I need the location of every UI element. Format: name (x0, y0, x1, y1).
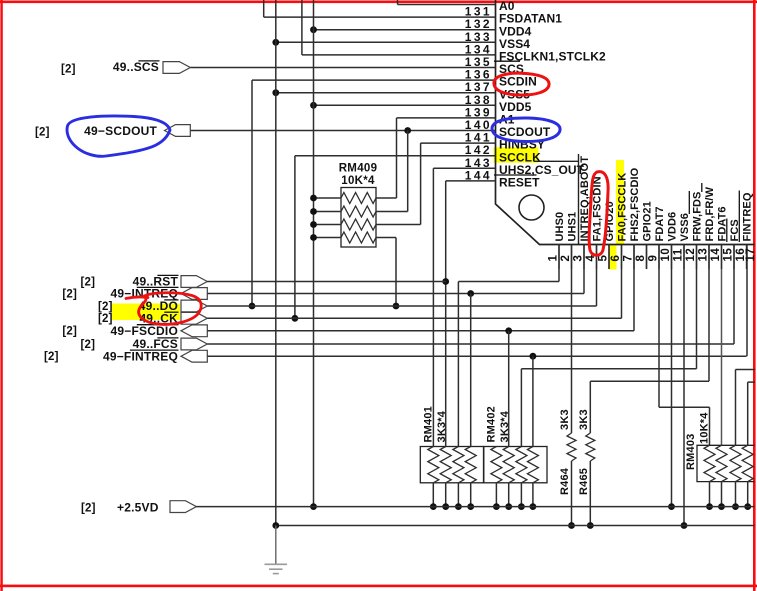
svg-text:3K3*4: 3K3*4 (436, 410, 448, 442)
junction VSS-GND bus (272, 522, 279, 529)
junction RM402-1 (493, 503, 500, 510)
overline FINTREQ (130, 349, 179, 351)
svg-text:RM402: RM402 (486, 406, 498, 442)
resistor RM401 element 1 (428, 447, 439, 483)
junction INTREQ-RM401-4 (467, 290, 474, 297)
overline bar W part of pin13 name (701, 183, 703, 192)
wire RM401-4 riser (470, 294, 472, 447)
pin 15 stub (733, 245, 735, 270)
svg-text:49..SCS: 49..SCS (113, 60, 159, 74)
wire down to R465 (589, 381, 591, 433)
wire FSCDIO line to pin7 (207, 330, 634, 332)
wire RM409-2 left stub to VDD (314, 211, 342, 213)
wire down to RM402-3 (520, 369, 522, 447)
wire pin133 VSS4 to VSS net (276, 41, 496, 43)
svg-text:15: 15 (723, 248, 735, 262)
junction RESET-RST line (442, 278, 449, 285)
wire pin13 FRD,FR/W down (708, 245, 710, 382)
pin 5 stub (608, 245, 610, 270)
junction VSS4 (272, 39, 279, 46)
overline RESET pin name (494, 174, 537, 176)
junction VDD-RM409-4 (310, 234, 317, 241)
resistor RM402 element 4 (527, 447, 538, 483)
wire RM409-3 right to HINBSY (376, 224, 421, 226)
svg-text:R464: R464 (559, 467, 571, 495)
wire pin10 VDD6 down to +2.5V bus (671, 245, 673, 507)
wire pin143 UHS2,CS_OUT (433, 167, 495, 169)
pin 8 stub (646, 245, 648, 270)
wire RM403-1 to +2.5V bus (709, 482, 711, 507)
wire pin4 FA1,FSCDIN stub (596, 245, 598, 307)
junction RM401-3 (455, 503, 462, 510)
svg-text:7: 7 (623, 255, 635, 262)
overline bar FINTREQ pin16 name (738, 191, 740, 243)
overline SCS pin name (494, 60, 520, 62)
junction VDD4 (310, 26, 317, 33)
svg-text:+2.5VD: +2.5VD (117, 501, 159, 515)
wire pin142 SCCLK (295, 155, 496, 157)
junction VDD6 (668, 503, 675, 510)
yellow highlight pin 6 number (609, 244, 617, 270)
svg-text:11: 11 (673, 248, 685, 261)
yellow highlight 49..CK label (112, 304, 180, 321)
annotation red stroke under 49-INTREQ (126, 297, 148, 299)
annotation red circle around FA1,FSCDIN pin name (589, 172, 608, 256)
connector arrow in 49−INTREQ (181, 288, 207, 300)
junction RM401-4 (467, 503, 474, 510)
junction RM402-4 (530, 503, 537, 510)
svg-text:3: 3 (573, 255, 585, 262)
wire down to RM403-1 (709, 407, 711, 445)
page border red left (0, 0, 2, 591)
wire down to RM403-3 (735, 370, 737, 446)
wire pin143 down to RM401-1 (432, 168, 434, 446)
svg-text:UHS0: UHS0 (554, 212, 566, 242)
annotation red circle around 49..DO label (139, 293, 202, 325)
wire FRD,FR/W left (590, 380, 709, 382)
junction RM403-1 (706, 503, 713, 510)
resistor RM403 element 1 (704, 445, 715, 481)
svg-text:12: 12 (685, 248, 697, 262)
junction RM402-3 (518, 503, 525, 510)
resistor RM402 element 1 (491, 447, 502, 483)
wire SCDOUT net (190, 130, 495, 132)
wire RM409-2 right stub (376, 211, 408, 213)
wire RM402-1 to +2.5V bus (495, 483, 497, 507)
wire RM409-1 left stub to VDD (314, 197, 342, 199)
wire pin141 HINBSY (421, 142, 496, 144)
wire pin12 FRW,FDS down (696, 245, 698, 369)
wire pin130 A0 stub (398, 4, 496, 6)
wire RM403-4 to +2.5V bus (747, 482, 749, 507)
wire RM401-4 to +2.5V bus (470, 483, 472, 507)
annotation blue circle around SCDOUT pin name (492, 118, 560, 142)
annotation red circle around SCDIN pin name (494, 73, 549, 95)
junction VDD-RM409-2 (310, 208, 317, 215)
wire UHS0 down to RM401-3 (457, 282, 459, 447)
junction FINTREQ-RM402-4 (530, 353, 537, 360)
svg-text:14: 14 (710, 248, 722, 262)
svg-text:RM401: RM401 (423, 406, 435, 442)
wire A1 down to RM409-1 (396, 118, 398, 198)
pin 11 stub (683, 245, 685, 270)
junction RM401-1 (430, 503, 437, 510)
resistor RM409 element 2 (341, 206, 376, 217)
pin 1 stub (558, 245, 560, 270)
svg-text:[2]: [2] (98, 301, 113, 313)
overline CK (164, 311, 178, 313)
wire CK line to pin6 (207, 317, 621, 319)
wire pin16 FINTREQ stub (746, 245, 748, 357)
junction VDD to +2.5V bus (310, 503, 317, 510)
junction SCCLK-CK (292, 315, 299, 322)
wire R465 to GND bus (589, 461, 591, 526)
page border red top (0, 1, 757, 4)
svg-text:8: 8 (635, 255, 647, 262)
wire pin14 FDAT6 down to RM403-2 (721, 245, 723, 446)
resistor network RM409 box (341, 188, 376, 248)
wire SCDIN down to DO line (251, 80, 253, 306)
junction VDD5 (310, 102, 317, 109)
page border red right (753, 0, 756, 591)
pin 6 stub (621, 245, 623, 270)
wire VSS vertical net (275, 0, 277, 526)
wire pin139 A1 (397, 117, 496, 119)
wire FINTREQ line to pin16 (207, 355, 746, 357)
svg-text:10K*4: 10K*4 (699, 412, 711, 444)
junction VDD-RM409-1 (310, 195, 317, 202)
overline INTREQ (137, 286, 179, 288)
svg-text:VSS6: VSS6 (679, 213, 691, 242)
overline SCS of label (138, 60, 159, 62)
yellow highlight FA0,FSCCLK column (616, 160, 624, 244)
junction RM401-2 (442, 503, 449, 510)
wire RM401-1 to +2.5V bus (432, 483, 434, 507)
wire RM402-2 riser (508, 331, 510, 447)
stub pin5 GPIO20 (608, 245, 610, 270)
connector arrow in 49-SCDOUT (165, 125, 191, 137)
svg-text:10: 10 (660, 248, 672, 262)
wire pin15 FCS stub (733, 245, 735, 345)
svg-text:FA0,FSCCLK: FA0,FSCCLK (616, 173, 628, 242)
wire RM402-4 to +2.5V bus (532, 483, 534, 507)
wire pin131 FSDATAN1 stub (264, 16, 496, 18)
overline bar FDS part of pin12 name (688, 191, 690, 214)
page border red bottom (0, 585, 757, 588)
wire pin136 SCDIN (252, 79, 496, 81)
resistor RM401 element 2 (440, 447, 451, 483)
resistor network RM402 box (484, 447, 547, 483)
junction VDD-RM409-3 (310, 221, 317, 228)
connector arrow in 49−FINTREQ (181, 350, 207, 362)
svg-text:10K*4: 10K*4 (341, 175, 375, 187)
pin 3 stub (583, 245, 585, 270)
svg-text:1: 1 (548, 255, 560, 262)
pin 4 stub (596, 245, 598, 270)
svg-text:13: 13 (698, 248, 710, 262)
pin 13 stub (708, 245, 710, 270)
pin 7 stub (633, 245, 635, 270)
pin 10 stub (671, 245, 673, 270)
svg-text:FDAT7: FDAT7 (654, 206, 666, 241)
junction SCDOUT-RM409-2 (404, 127, 411, 134)
connector arrow out 49..RST (181, 276, 207, 288)
connector arrow out 49..SCS (163, 62, 190, 74)
wire RM402-3 to +2.5V bus (520, 483, 522, 507)
IC pin-1 index circle (519, 195, 544, 220)
resistor RM402 element 2 (503, 447, 514, 483)
wire FRW,FDS left (521, 368, 696, 370)
junction VSS5 (272, 89, 279, 96)
wire RESET down to RM401-2 (445, 181, 447, 447)
wire from sheet edge to RM403-3 (736, 369, 756, 371)
svg-text:17: 17 (745, 248, 757, 262)
wire DO line to pin4 (207, 305, 596, 307)
wire pin130 riser to top (397, 0, 399, 5)
svg-text:RESET: RESET (499, 176, 540, 190)
wire RM403-3 to +2.5V bus (735, 482, 737, 507)
overline RST (157, 274, 178, 276)
svg-text:FHS2,FSCDIO: FHS2,FSCDIO (629, 167, 641, 241)
pin 2 stub (571, 245, 573, 270)
wire FCS line to pin15 (207, 343, 734, 345)
wire pin138 VDD5 to VDD net (314, 104, 496, 106)
junction R464-GND (568, 522, 575, 529)
pin 9 stub (658, 245, 660, 270)
svg-text:VDD6: VDD6 (666, 212, 678, 242)
wire RM402-4 riser (532, 356, 534, 446)
resistor network RM403 box (697, 445, 755, 481)
annotation blue circle around 49-SCDOUT (67, 116, 170, 156)
connector arrow out 49..FCS (181, 338, 207, 350)
svg-text:[2]: [2] (81, 276, 96, 288)
svg-text:3K3: 3K3 (559, 409, 571, 430)
svg-text:[2]: [2] (35, 126, 50, 138)
junction RM402-2 (505, 503, 512, 510)
wire pin134 riser to top (301, 0, 303, 55)
resistor R464 (567, 433, 576, 461)
svg-text:49−FSCDIO: 49−FSCDIO (111, 324, 179, 338)
pin 12 stub (696, 245, 698, 270)
ground (275, 526, 277, 564)
overline FSCDIO (137, 324, 179, 326)
svg-text:6: 6 (610, 255, 622, 262)
wire RM403-2 to +2.5V bus (721, 482, 723, 507)
wire R464 to GND bus (571, 461, 573, 526)
resistor RM403 element 2 (716, 445, 727, 481)
junction RM403-4 (744, 503, 751, 510)
wire pin7 FHS2,FSCDIO stub (633, 245, 635, 331)
pin 14 stub (721, 245, 723, 270)
wire HINBSY down to RM409-3 (420, 143, 422, 224)
svg-text:[2]: [2] (61, 63, 76, 75)
junction FSCDIO-RM402-2 (505, 327, 512, 334)
resistor RM409 element 3 (341, 219, 376, 230)
resistor RM403 element 4 (742, 445, 753, 481)
wire GND bus (276, 525, 755, 527)
resistor RM401 element 3 (453, 447, 464, 483)
wire pin137 VSS5 to VSS net (276, 92, 496, 94)
svg-text:[2]: [2] (44, 351, 59, 363)
wire RST line (207, 281, 445, 283)
wire from sheet edge to RM403-4 (748, 381, 755, 383)
resistor R465 (586, 433, 595, 461)
yellow highlight SCCLK pin name (494, 147, 539, 162)
resistor network RM401 box (420, 447, 483, 483)
wire pin2 UHS1 down to R464 (571, 245, 573, 434)
svg-text:FINTREQ: FINTREQ (741, 192, 753, 241)
svg-text:FRD,FR/W: FRD,FR/W (704, 186, 716, 241)
wire RM409-3 left stub to VDD (314, 224, 342, 226)
wire RM409-4 down to DO line (395, 238, 397, 307)
svg-text:[2]: [2] (62, 326, 77, 338)
wire SCS net (190, 67, 495, 69)
wire RM401-2 to +2.5V bus (445, 483, 447, 507)
wire pin132 VDD4 to VDD net (314, 29, 496, 31)
overline DO (164, 299, 178, 301)
wire pin3 INTREQ,ABOOT stub (583, 245, 585, 294)
wire pin1 UHS0 stub down (558, 245, 560, 282)
wire SCCLK down to CK line (294, 156, 296, 319)
junction SCDIN-DO (249, 303, 256, 310)
resistor RM403 element 3 (730, 445, 741, 481)
overline bar FCS pin15 name (726, 219, 728, 243)
wire pin134 FSCLKN1 stub (302, 54, 496, 56)
wire pin144 RESET (446, 180, 496, 182)
wire pin6 FA0,FSCCLK stub (621, 245, 623, 319)
svg-text:3K3*4: 3K3*4 (499, 410, 511, 442)
wire RM402-2 to +2.5V bus (508, 483, 510, 507)
wire RM409-1 right to A1 riser (376, 197, 397, 199)
overline bar left of INTREQ,ABOOT vertical name (578, 154, 580, 244)
stub pin8 GPIO21 (646, 245, 648, 270)
wire +2.5V bus (196, 506, 754, 508)
resistor RM402 element 3 (516, 447, 527, 483)
svg-text:2: 2 (560, 255, 572, 262)
svg-text:UHS1: UHS1 (566, 212, 578, 242)
wire RM409-2 riser (407, 131, 409, 212)
svg-text:[2]: [2] (81, 503, 96, 515)
IC body outline (QFP corner with chamfer) (496, 0, 755, 245)
resistor RM409 element 4 (341, 232, 376, 243)
wire UHS0 horizontal (458, 281, 559, 283)
overline CS_OUT part of pin143 name (534, 160, 579, 162)
wire pin131 riser to top (263, 0, 265, 17)
svg-text:GPIO21: GPIO21 (641, 201, 653, 241)
svg-text:3K3: 3K3 (578, 409, 590, 430)
junction R465-GND (587, 522, 594, 529)
svg-text:RM409: RM409 (339, 163, 378, 175)
wire pin11 VSS6 down to GND bus (683, 245, 685, 526)
wire RM409-4 right stub (376, 237, 396, 239)
junction RM409-4 DO (393, 303, 400, 310)
svg-text:9: 9 (648, 255, 660, 262)
junction RM403-3 (732, 503, 739, 510)
resistor RM409 element 1 (341, 193, 376, 204)
wire FDAT7 jog right (659, 406, 710, 408)
wire INTREQ line (207, 293, 584, 295)
junction RM403-2 (718, 503, 725, 510)
wire RM401-3 to +2.5V bus (457, 483, 459, 507)
svg-text:RM403: RM403 (685, 434, 697, 470)
wire RM409-4 left stub to VDD (314, 237, 342, 239)
junction VSS6 (681, 522, 688, 529)
connector arrow out 49..DO (181, 300, 207, 312)
wire pin9 FDAT7 down (658, 245, 660, 408)
wire VDD vertical net (313, 0, 315, 507)
resistor RM401 element 4 (465, 447, 476, 483)
svg-text:FRW,FDS: FRW,FDS (691, 192, 703, 242)
pin 16 stub (746, 245, 748, 270)
svg-text:49−FINTREQ: 49−FINTREQ (103, 349, 178, 363)
svg-text:49−SCDOUT: 49−SCDOUT (84, 124, 157, 138)
svg-text:[2]: [2] (81, 339, 96, 351)
connector arrow out 49..CK (181, 312, 207, 324)
connector arrow out +2.5VD (170, 501, 196, 513)
overline FCS (157, 337, 178, 339)
wire down to RM403-4 (747, 382, 749, 445)
svg-text:R465: R465 (578, 468, 590, 495)
svg-text:[2]: [2] (62, 288, 77, 300)
connector arrow in 49−FSCDIO (181, 325, 207, 337)
